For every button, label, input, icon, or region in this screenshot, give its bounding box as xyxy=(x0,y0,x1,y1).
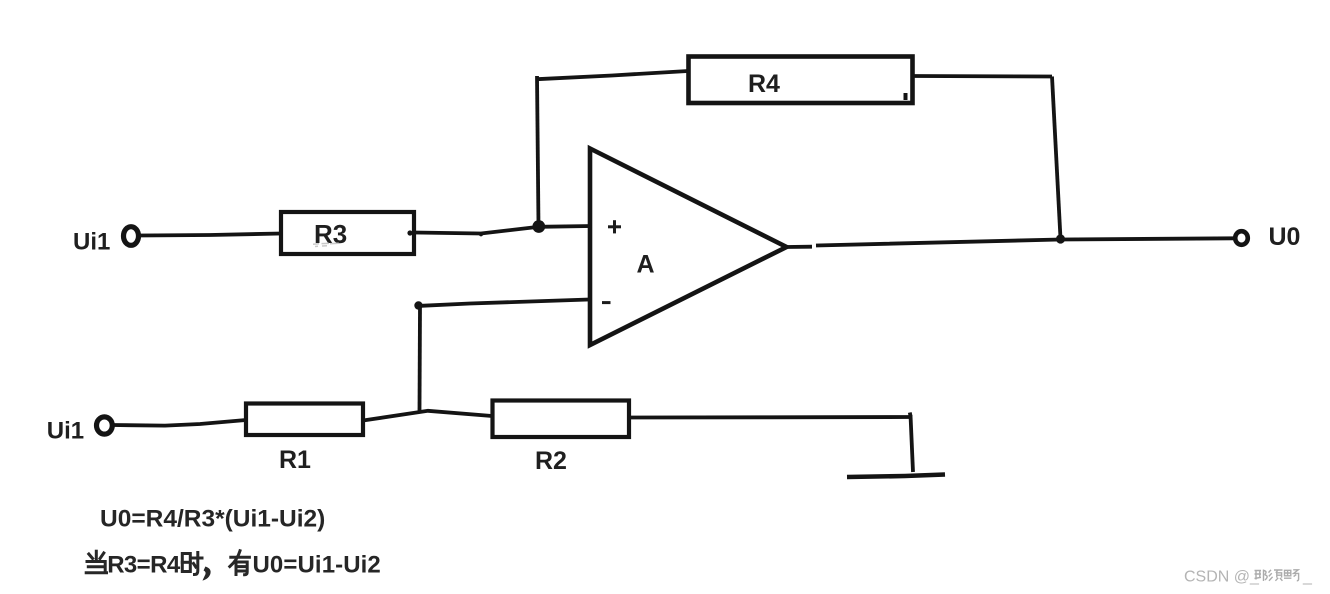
svg-text:U0=Ui1-Ui2: U0=Ui1-Ui2 xyxy=(253,552,381,579)
svg-text:CSDN @_: CSDN @_ xyxy=(1184,569,1260,586)
svg-text:A: A xyxy=(637,251,655,279)
svg-text:R4: R4 xyxy=(748,70,780,98)
svg-text:Ui1: Ui1 xyxy=(73,229,110,256)
svg-text:_: _ xyxy=(1302,569,1313,586)
svg-text:R2: R2 xyxy=(535,447,567,475)
svg-text:Ui1: Ui1 xyxy=(47,418,84,445)
svg-text:R1: R1 xyxy=(279,446,311,474)
svg-text:U0=R4/R3*(Ui1-Ui2): U0=R4/R3*(Ui1-Ui2) xyxy=(100,506,325,533)
svg-text:U0: U0 xyxy=(1269,223,1301,251)
svg-text:R3=R4: R3=R4 xyxy=(107,552,181,579)
